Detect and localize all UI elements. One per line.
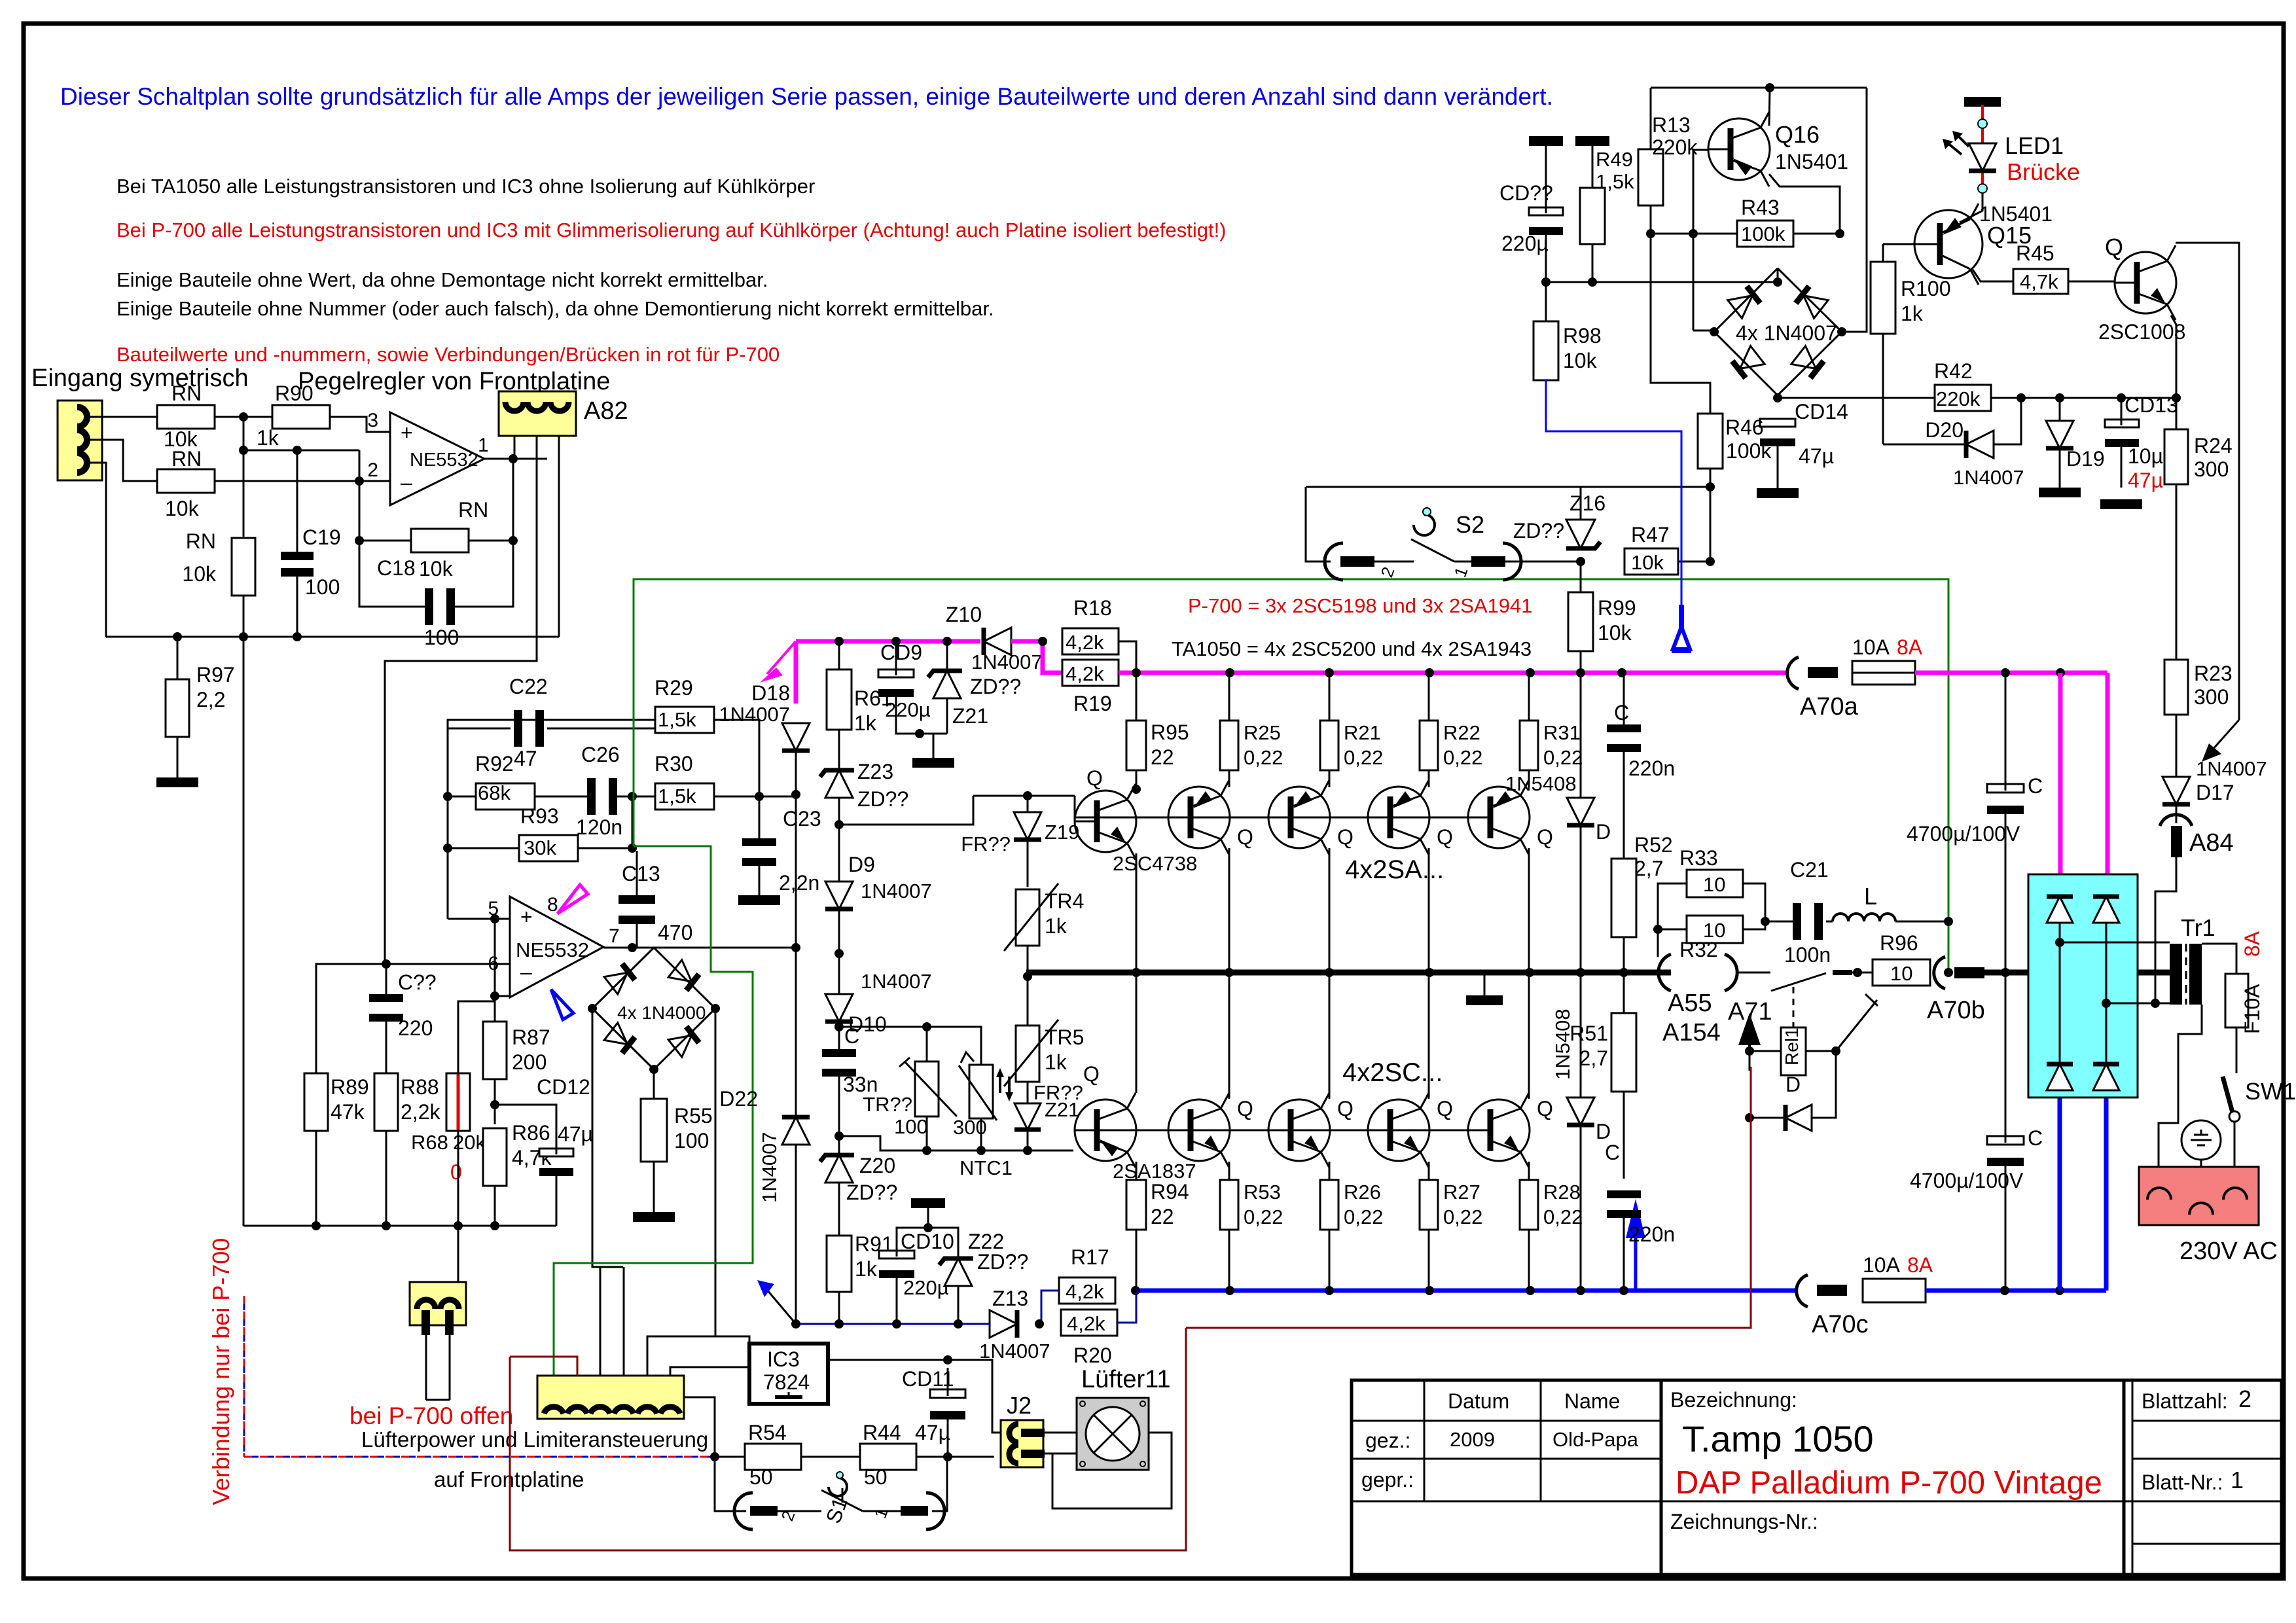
svg-text:A55: A55 (1668, 990, 1712, 1017)
svg-text:2009: 2009 (1450, 1428, 1495, 1451)
bridge1 diode bottom-right (668, 1026, 699, 1057)
svg-text:A70b: A70b (1927, 997, 1985, 1024)
capacitor C23 2,2n (742, 838, 776, 846)
wire A82 pin1 down to out (514, 436, 516, 459)
svg-text:Q: Q (1537, 825, 1553, 849)
wire opamp out (484, 458, 547, 460)
capacitor C 33n (822, 1049, 856, 1057)
svg-text:1N4007: 1N4007 (2196, 757, 2267, 780)
svg-text:1,5k: 1,5k (658, 785, 696, 808)
ground R55 (633, 1212, 675, 1222)
svg-text:220k: 220k (1652, 135, 1698, 159)
svg-text:1N4007: 1N4007 (758, 1132, 781, 1203)
wire bridge left to lower rail (592, 1008, 623, 1267)
wire pin6 left rail (316, 964, 510, 1075)
svg-text:R99: R99 (1598, 596, 1636, 620)
svg-text:4700µ/100V: 4700µ/100V (1910, 1169, 2024, 1192)
svg-text:1k: 1k (1045, 914, 1067, 938)
resistor RN lower 10k (157, 469, 215, 493)
svg-text:10: 10 (1890, 962, 1912, 985)
svg-text:1,5k: 1,5k (658, 708, 696, 731)
capacitor C13 470 (619, 895, 655, 904)
svg-text:2: 2 (2238, 1385, 2251, 1412)
svg-text:1N5408: 1N5408 (1505, 772, 1577, 795)
wire Q emitter down (2171, 315, 2176, 398)
wire bridge right down (715, 1008, 717, 1336)
svg-text:Bei P-700 alle Leistungstransi: Bei P-700 alle Leistungstransistoren und… (117, 219, 1227, 241)
svg-text:Q: Q (1537, 1097, 1553, 1120)
diode bridge B2 4x 1N4007 (1714, 268, 1778, 332)
svg-text:0,22: 0,22 (1344, 746, 1383, 769)
transistor Q15 1N5401 (1914, 210, 1982, 278)
svg-text:R17: R17 (1071, 1245, 1109, 1269)
svg-text:RN: RN (458, 498, 488, 522)
svg-text:1N4007: 1N4007 (861, 880, 932, 902)
svg-text:TR??: TR?? (863, 1093, 912, 1116)
magenta verticals to rectifier (2058, 673, 2063, 874)
power transistor Q row1 #2 (1268, 787, 1330, 848)
wire D17 to A84 (2176, 804, 2178, 823)
svg-text:22: 22 (1151, 1205, 1174, 1228)
svg-text:R21: R21 (1344, 721, 1381, 744)
svg-text:220: 220 (398, 1016, 433, 1040)
svg-text:47k: 47k (331, 1100, 365, 1124)
svg-text:22: 22 (1151, 745, 1174, 769)
svg-text:R42: R42 (1934, 359, 1973, 383)
svg-text:Verbindung nur bei P-700: Verbindung nur bei P-700 (207, 1238, 234, 1505)
wire to driver2 collector (1136, 972, 1138, 1093)
emitter resistor row1 col 2183 (1420, 721, 1438, 770)
zener FR?? Z21 lower (1014, 1103, 1041, 1130)
svg-text:R45: R45 (2016, 241, 2054, 265)
bridge2 diode bottom-left (1732, 346, 1765, 379)
svg-text:TR4: TR4 (1045, 889, 1084, 913)
svg-text:0,22: 0,22 (1443, 1205, 1482, 1228)
svg-text:470: 470 (658, 921, 692, 944)
capacitor CD11 47u (930, 1389, 965, 1398)
wire C13 top (636, 851, 638, 898)
svg-text:3: 3 (367, 410, 378, 431)
wires R33 R32 loop (1658, 883, 1687, 929)
svg-text:R26: R26 (1344, 1181, 1381, 1204)
svg-text:10µ: 10µ (2128, 444, 2163, 468)
junction CD9 Z21 (915, 729, 924, 738)
diode D relay (1785, 1105, 1812, 1131)
A71 arc (1725, 954, 1737, 991)
mid bus thick (1026, 970, 1671, 976)
svg-text:8: 8 (547, 894, 558, 916)
capacitor CD?? 220u (1529, 207, 1563, 215)
svg-text:4x2SA...: 4x2SA... (1345, 855, 1444, 884)
emitter resistor row2 col 2336 (1520, 1180, 1538, 1230)
svg-text:4,7k: 4,7k (2020, 270, 2058, 293)
svg-text:Q: Q (1086, 766, 1103, 790)
wire conn pin3 (600, 1267, 601, 1376)
svg-text:1k: 1k (1901, 302, 1924, 325)
svg-text:F10A: F10A (2240, 984, 2264, 1034)
svg-text:4,2k: 4,2k (1066, 631, 1104, 654)
S1 lever (821, 1490, 863, 1511)
wire A82 pin3 down (558, 436, 560, 637)
connector bei P-700 offen (410, 1282, 466, 1325)
wire LED down to Q15 (1960, 193, 1982, 223)
svg-text:A82: A82 (584, 397, 628, 425)
wire driver collector down (1136, 853, 1138, 972)
svg-text:CD9: CD9 (880, 641, 922, 664)
A55 arc (1659, 954, 1671, 991)
svg-text:Z16: Z16 (1570, 491, 1605, 515)
wire opamp2 out 7 (603, 947, 796, 949)
svg-text:100k: 100k (1726, 439, 1772, 463)
svg-text:Z23: Z23 (857, 760, 893, 783)
svg-text:C21: C21 (1790, 858, 1829, 882)
svg-text:R44: R44 (863, 1421, 901, 1444)
svg-text:50: 50 (749, 1465, 773, 1489)
svg-text:68k: 68k (478, 781, 511, 804)
resistor RN upper 10k (157, 405, 215, 429)
zener Z19 FR?? (1014, 812, 1041, 840)
resistor R98 10k (1534, 321, 1558, 380)
power transistor Q row1 #3 (1368, 787, 1429, 848)
svg-text:Eingang symetrisch: Eingang symetrisch (31, 365, 249, 392)
svg-text:R23: R23 (2194, 662, 2233, 685)
resistor R86 4,7k (483, 1128, 507, 1186)
resistor R33 10 (1687, 870, 1743, 897)
svg-text:Brücke: Brücke (2007, 158, 2080, 185)
svg-text:10k: 10k (419, 557, 454, 580)
resistor R97 2,2 (166, 679, 189, 737)
svg-text:2,7: 2,7 (1634, 857, 1663, 880)
wire after lever to R96 (1852, 972, 1873, 974)
svg-text:+: + (520, 905, 533, 929)
power transistor Q row2 #2 (1268, 1099, 1330, 1161)
svg-text:R52: R52 (1634, 833, 1673, 857)
wire R30 right (714, 796, 799, 798)
resistor R44 50 (860, 1444, 916, 1470)
wire R17 left (1041, 1291, 1059, 1323)
capacitor CD9 220u (878, 669, 914, 677)
zener Z16 ZD?? (1566, 520, 1595, 548)
svg-text:1N4007: 1N4007 (1953, 466, 2024, 489)
svg-text:RN: RN (171, 382, 202, 405)
svg-text:RN: RN (171, 447, 202, 471)
trimmer TR5 1k (1016, 1026, 1039, 1082)
wire RN lower to opamp pin2 (215, 480, 390, 482)
green wire net (634, 846, 753, 1086)
switch SW1 (2223, 1077, 2233, 1113)
probe arrow pin4 blue lower (767, 1290, 796, 1324)
power transistor Q row2 #1 (1168, 1099, 1230, 1161)
svg-text:Bauteilwerte und -nummern, sow: Bauteilwerte und -nummern, sowie Verbind… (117, 343, 780, 366)
svg-text:R93: R93 (520, 804, 559, 828)
svg-text:Z19: Z19 (1045, 821, 1079, 844)
wire bridge top (1777, 268, 1779, 282)
svg-text:2SC1008: 2SC1008 (2098, 320, 2185, 344)
svg-text:47: 47 (514, 747, 537, 770)
wire J2 lower to fan (1045, 1453, 1077, 1455)
magenta bus main (1119, 671, 1786, 675)
wire loop down to A55 (1657, 929, 1659, 957)
svg-text:2,2n: 2,2n (779, 871, 819, 895)
capacitor CD14 47u (1760, 419, 1795, 427)
wires around C22/R92/R93 (448, 728, 511, 730)
emitter resistor row2 col 1878 (1220, 1180, 1238, 1230)
switch S2 (1325, 543, 1343, 580)
svg-text:R54: R54 (748, 1421, 787, 1444)
wire node vertical (243, 417, 245, 537)
wire Z23 column (838, 730, 840, 770)
svg-text:D: D (1785, 1073, 1801, 1096)
svg-text:C23: C23 (783, 807, 821, 830)
resistor R20 4,2k (1061, 1310, 1117, 1336)
fan frame wire (1052, 1433, 1172, 1508)
ground CD14 (1757, 488, 1799, 498)
green wire long vertical and horizontal (634, 579, 1948, 972)
svg-text:FR??: FR?? (961, 832, 1011, 855)
svg-text:IC3: IC3 (767, 1347, 800, 1371)
resistor R45 4,7k (2013, 269, 2068, 294)
svg-text:Blatt-Nr.:: Blatt-Nr.: (2142, 1471, 2223, 1494)
resistor R30 1,5k (655, 783, 714, 810)
zener Z23 ZD?? (825, 770, 853, 798)
svg-text:8A: 8A (2240, 931, 2264, 957)
svg-text:CD14: CD14 (1795, 400, 1848, 423)
ground sym R97 (156, 777, 198, 787)
svg-text:0,22: 0,22 (1543, 746, 1583, 769)
wire conn bottom (426, 1399, 450, 1401)
svg-text:0: 0 (450, 1160, 462, 1184)
bridge1 diode bottom-left (604, 1023, 635, 1054)
svg-text:R96: R96 (1880, 931, 1918, 955)
capacitor CD10 220u (879, 1251, 914, 1258)
svg-text:300: 300 (2194, 685, 2229, 709)
bridge rectifier block cyan (2028, 874, 2138, 1097)
wire driver2 base down (1074, 1130, 1076, 1132)
fuse A70b (1934, 957, 1945, 989)
svg-text:2SC4738: 2SC4738 (1113, 852, 1197, 875)
svg-text:R31: R31 (1543, 721, 1581, 744)
wire input cold to RN lower (84, 440, 157, 481)
svg-text:R24: R24 (2194, 434, 2233, 457)
svg-text:8A: 8A (1907, 1253, 1933, 1277)
svg-text:Q16: Q16 (1775, 121, 1820, 148)
fuse A70a (1787, 657, 1799, 689)
svg-text:Einige Bauteile ohne Wert, da: Einige Bauteile ohne Wert, da ohne Demon… (117, 268, 768, 291)
bridge2 diode top-left (1728, 286, 1761, 319)
svg-text:Bezeichnung:: Bezeichnung: (1670, 1388, 1797, 1412)
ground rail lower left (243, 1225, 556, 1227)
zener Z21 ZD?? (933, 671, 961, 698)
svg-text:+: + (401, 421, 413, 444)
emitter resistor R94 22 (1126, 1180, 1146, 1230)
resistor R89 47k (304, 1073, 328, 1131)
svg-text:R97: R97 (196, 663, 235, 687)
wire conn to R54 node (684, 1397, 715, 1457)
svg-text:4x 1N4000: 4x 1N4000 (617, 1003, 706, 1023)
wire pin5 net (448, 918, 495, 920)
svg-text:100: 100 (305, 575, 340, 599)
relay contact lever (1836, 1000, 1877, 1051)
resistor R47 10k (1624, 548, 1678, 575)
svg-text:Q: Q (1437, 1097, 1453, 1120)
svg-text:T.amp 1050: T.amp 1050 (1682, 1418, 1874, 1459)
resistor R29 1,5k (655, 707, 714, 733)
blue wire lower row (796, 1323, 990, 1325)
svg-text:C: C (1614, 701, 1629, 724)
rectifier diodes top (2047, 897, 2073, 923)
title block outer (1352, 1380, 2282, 1575)
probe pin8 magenta (558, 885, 588, 914)
LED arrows (1947, 143, 1962, 154)
wire bridge bottom (1778, 395, 1935, 398)
svg-text:120n: 120n (576, 815, 622, 839)
title block horizontals (1352, 1420, 1661, 1422)
wire C22 top rail (448, 720, 655, 728)
wire RN mid down (243, 596, 245, 637)
svg-text:R28: R28 (1543, 1181, 1581, 1204)
svg-text:Datum: Datum (1448, 1389, 1509, 1413)
resistor R92 68k (476, 783, 535, 810)
wire conn pin4 (623, 1267, 625, 1376)
resistor R51 2,7 (1611, 1013, 1636, 1092)
svg-text:R55: R55 (674, 1104, 713, 1128)
svg-text:10: 10 (1703, 873, 1725, 896)
ground CD13 (2100, 499, 2142, 509)
svg-text:0,22: 0,22 (1443, 746, 1482, 769)
svg-text:Z21: Z21 (952, 704, 988, 728)
svg-text:100: 100 (674, 1129, 709, 1152)
svg-text:4x 1N4007: 4x 1N4007 (1736, 321, 1837, 345)
capacitor C21 100n (1793, 903, 1801, 940)
svg-text:1N4007: 1N4007 (719, 703, 790, 726)
diode D18 1N4007 (782, 723, 810, 751)
wire earth down (2200, 1160, 2202, 1167)
svg-text:10A: 10A (1863, 1253, 1901, 1277)
svg-text:CD10: CD10 (901, 1230, 954, 1253)
svg-text:R30: R30 (655, 752, 693, 776)
wire base bus row2 (1075, 1130, 1469, 1132)
diode D10 1N4007 (825, 994, 853, 1022)
svg-text:100n: 100n (1784, 943, 1831, 967)
wire A82 pin2 down to lower stage (385, 436, 537, 964)
svg-text:R88: R88 (401, 1075, 439, 1099)
svg-text:C: C (2028, 1126, 2043, 1150)
svg-text:0,22: 0,22 (1244, 1205, 1283, 1228)
svg-text:10A: 10A (1852, 635, 1890, 659)
emitter resistor row2 col 2183 (1420, 1180, 1438, 1230)
resistor R54 50 (745, 1444, 801, 1470)
wire RN to node (215, 416, 340, 418)
wire rect to tr1 top (2060, 942, 2170, 944)
svg-text:R43: R43 (1741, 196, 1780, 219)
wire to J2 upper run (948, 1360, 992, 1414)
svg-text:7: 7 (609, 925, 620, 947)
ground stub mid bus (1484, 972, 1486, 995)
capacitor CD12 47u (539, 1149, 573, 1156)
svg-text:R33: R33 (1679, 846, 1718, 870)
wire D right up (1812, 1051, 1836, 1118)
wire R13 col to R46 (1651, 234, 1710, 414)
IC3 7824 box (749, 1344, 828, 1404)
blue probe wire (1546, 429, 1681, 605)
wire R90 to opamp pin3 (330, 417, 390, 432)
svg-text:RN: RN (186, 529, 216, 553)
emitter resistor R95 22 (1126, 721, 1146, 770)
svg-text:CD11: CD11 (902, 1367, 954, 1391)
wire Q collector (2176, 243, 2239, 720)
svg-text:DAP Palladium P-700 Vintage: DAP Palladium P-700 Vintage (1676, 1465, 2102, 1501)
resistor R42 220k (1935, 385, 1991, 411)
svg-text:10k: 10k (165, 497, 200, 520)
svg-text:C22: C22 (509, 675, 548, 698)
svg-text:Q: Q (1083, 1062, 1100, 1086)
wire R98 down blue (1545, 380, 1547, 429)
svg-text:R22: R22 (1443, 721, 1480, 744)
capacitor C 4700u lower (1987, 1136, 2024, 1145)
svg-text:ZD??: ZD?? (977, 1250, 1028, 1274)
svg-text:Q: Q (1337, 1097, 1354, 1120)
wire input gnd down (84, 463, 106, 637)
resistor R19 4,2k (1062, 660, 1119, 686)
magenta after fuse (1915, 671, 2108, 675)
svg-text:1: 1 (478, 435, 489, 456)
resistor R32 10 (1687, 916, 1743, 943)
blue probe hook (1679, 605, 1684, 630)
svg-text:A70a: A70a (1800, 693, 1859, 721)
wire CD11 node right to J2 (948, 1456, 994, 1458)
wire inverting node vertical (359, 450, 361, 481)
wire C13 bottom (636, 922, 638, 948)
row1 collector columns to mid bus (1225, 968, 1234, 977)
wire bridge right (1842, 88, 1867, 332)
resistor R49 1,5k (1580, 188, 1605, 244)
diode D19 (2046, 421, 2073, 448)
maroon to relay (1186, 1067, 1751, 1328)
svg-text:D9: D9 (848, 853, 875, 876)
wire relay left rail (1749, 1050, 1781, 1052)
wire R13 to rail (1650, 234, 1652, 282)
wire arrow to maroon (1749, 1051, 1751, 1071)
switch S2 enclosure (1306, 486, 1710, 488)
wire A84 down (2155, 857, 2176, 1003)
svg-text:R87: R87 (512, 1026, 550, 1049)
dashed red blue wire (243, 1296, 245, 1457)
svg-text:300: 300 (2194, 457, 2229, 481)
svg-text:1k: 1k (855, 1257, 878, 1281)
svg-text:D22: D22 (719, 1087, 758, 1111)
svg-text:R92: R92 (475, 752, 514, 776)
power transistor Q row1 #4 (1468, 787, 1530, 848)
probe pin4 blue (551, 990, 573, 1020)
svg-text:A70c: A70c (1812, 1311, 1869, 1338)
svg-text:R18: R18 (1073, 596, 1112, 620)
svg-text:Z10: Z10 (946, 603, 982, 626)
LED1 ground bar (1964, 97, 2001, 107)
resistor R13 220k (1638, 149, 1663, 205)
svg-text:D18: D18 (751, 681, 790, 705)
wire FR lower (1027, 1082, 1029, 1103)
rail lower bias (839, 1136, 1073, 1150)
svg-text:R95: R95 (1151, 721, 1189, 744)
rectifier diodes bottom (2047, 1064, 2073, 1090)
maroon wire top (510, 1357, 577, 1376)
svg-text:TR5: TR5 (1045, 1026, 1084, 1049)
svg-text:–: – (520, 960, 532, 984)
svg-text:D17: D17 (2196, 781, 2234, 804)
svg-text:5: 5 (488, 898, 499, 919)
svg-text:CD13: CD13 (2125, 393, 2178, 417)
resistor R100 1k (1871, 262, 1895, 334)
